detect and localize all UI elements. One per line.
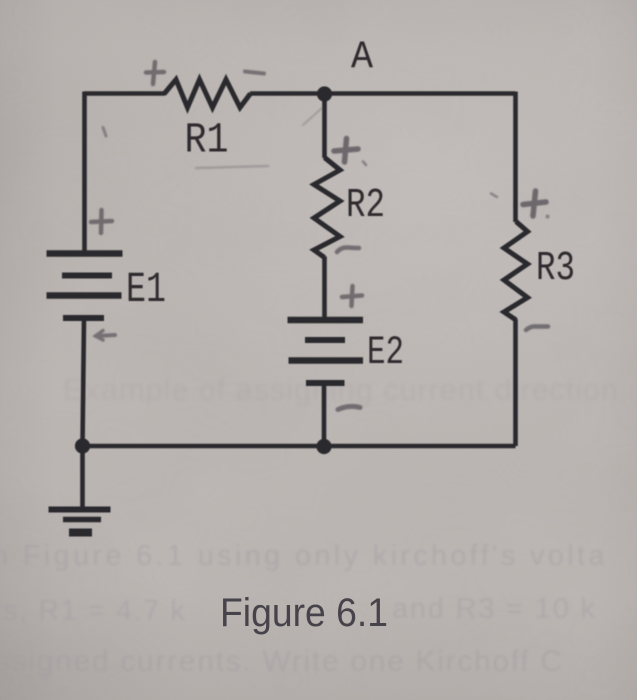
pencil faint line under R1 label xyxy=(196,166,268,168)
wire bottom xyxy=(83,444,516,449)
pencil plus above R1 left xyxy=(146,62,164,84)
svg-text:A: A xyxy=(351,36,374,80)
svg-text:E2: E2 xyxy=(367,331,404,376)
svg-text:R3: R3 xyxy=(536,246,575,292)
faint show-through line: Example of assigning current direction xyxy=(63,372,619,407)
faint show-through line: and R3 = 10 k xyxy=(392,593,597,625)
junction dot bottom middle xyxy=(316,439,331,454)
pencil tick left of R3 plus xyxy=(491,194,497,198)
faint show-through line: ssigned currents. Write one Kirchoff C xyxy=(0,645,564,678)
node A junction dot xyxy=(317,86,332,101)
wire left upper xyxy=(82,92,87,254)
ground bar 1 xyxy=(49,507,111,513)
pencil plus right wire above R3 xyxy=(523,191,546,216)
wire middle R2 to E2 xyxy=(322,257,327,321)
svg-text:Figure 6.1: Figure 6.1 xyxy=(220,591,388,635)
svg-text:ssigned currents. Write one K: ssigned currents. Write one Kirchoff C xyxy=(0,645,564,678)
pencil minus below E2 xyxy=(338,406,360,409)
svg-text:R1: R1 xyxy=(185,116,229,165)
wire middle upper (node A to R2) xyxy=(322,94,327,159)
wire middle E2 to bottom xyxy=(322,383,327,446)
battery E1 plate 4 short xyxy=(63,315,104,321)
pencil plus above E2 xyxy=(342,286,362,306)
svg-text:E1: E1 xyxy=(126,265,166,314)
faint show-through line: rs, R1 = 4.7 k xyxy=(0,595,186,627)
ground stem xyxy=(80,446,85,509)
pencil tick top-left inside loop xyxy=(103,128,106,137)
pencil minus below R2 xyxy=(337,247,359,252)
battery E1 plate 2 short xyxy=(62,273,112,279)
battery E2 plate 4 short xyxy=(306,380,345,386)
ground bar 3 xyxy=(69,529,92,537)
faint show-through line: n Figure 6.1 using only kirchoff's voltage xyxy=(0,540,608,572)
svg-text:and R3 = 10 k: and R3 = 10 k xyxy=(392,593,597,625)
resistor R3 xyxy=(504,222,528,321)
pencil plus below node A xyxy=(334,139,358,163)
svg-text:rs, R1 = 4.7 k: rs, R1 = 4.7 k xyxy=(0,595,186,627)
wire right lower xyxy=(513,319,518,446)
battery E1 plate 1 long xyxy=(47,250,123,257)
pencil dot below R3 plus xyxy=(546,215,550,219)
battery E2 plate 2 short xyxy=(305,337,345,343)
wire right upper xyxy=(513,92,518,223)
svg-text:R2: R2 xyxy=(346,183,385,229)
battery E1 plate 3 long xyxy=(47,292,122,299)
pencil minus above R1 right xyxy=(245,72,264,74)
pencil tick right of plus xyxy=(363,162,366,166)
svg-text:n Figure 6.1 using only kircho: n Figure 6.1 using only kirchoff's volta xyxy=(0,540,608,572)
ground bar 2 xyxy=(63,517,101,523)
pencil arrow below E1 xyxy=(96,331,116,341)
pencil minus below R3 xyxy=(526,326,548,330)
wire top left of R1 xyxy=(84,91,165,96)
battery E2 plate 1 long xyxy=(288,317,364,324)
pencil plus left wire above E1 xyxy=(91,210,112,233)
resistor R1 xyxy=(164,80,251,108)
resistor R2 xyxy=(314,158,340,258)
wire left lower xyxy=(83,319,85,446)
junction dot bottom left xyxy=(75,438,90,453)
wire top right of R1 to corner xyxy=(250,91,515,96)
svg-text:Example of assigning current d: Example of assigning current direction xyxy=(63,372,619,407)
battery E2 plate 3 long xyxy=(289,357,364,364)
pencil scratch near node A xyxy=(303,108,322,125)
